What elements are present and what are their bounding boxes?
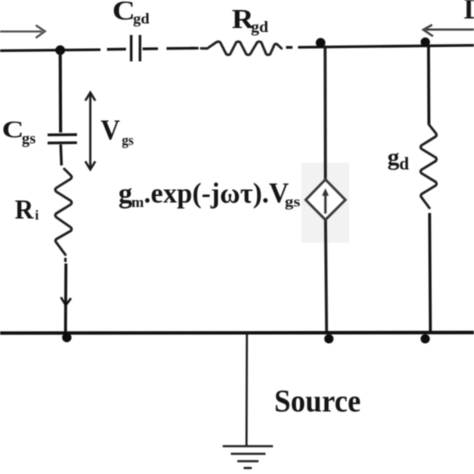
svg-text:C: C	[2, 118, 24, 144]
wire gd branch bottom	[428, 213, 432, 333]
ground symbol	[223, 446, 273, 468]
wire Ri to bottom rail	[64, 258, 67, 333]
gate current arrow	[0, 25, 45, 38]
capacitor C_gd	[131, 35, 140, 61]
wire Cgs to Ri	[59, 145, 62, 166]
wire gate node to Cgd	[0, 49, 126, 51]
wire gd branch top	[427, 45, 430, 125]
resistor g_d	[421, 125, 437, 209]
current source internal arrow	[322, 188, 329, 213]
node A (gate top)	[55, 45, 65, 55]
svg-text:d: d	[399, 153, 409, 173]
node B (current source top)	[316, 38, 326, 48]
svg-text:.exp(-jωτ).V: .exp(-jωτ).V	[144, 178, 289, 209]
wire current source bottom	[326, 220, 327, 333]
svg-text:m: m	[131, 195, 144, 211]
svg-text:gs: gs	[22, 130, 36, 147]
svg-text:gs: gs	[122, 133, 134, 149]
node D (left bottom)	[62, 333, 71, 342]
svg-text:gd: gd	[251, 19, 269, 36]
current source backdrop	[302, 163, 350, 243]
svg-text:V: V	[101, 115, 120, 147]
wire current source top	[324, 46, 327, 180]
svg-text:C: C	[112, 0, 135, 25]
current source U1 (diamond)	[306, 180, 346, 220]
svg-text:i: i	[35, 208, 39, 223]
svg-text:g: g	[387, 145, 399, 171]
svg-text:g: g	[118, 178, 132, 209]
capacitor C_gs	[48, 135, 77, 143]
resistor R_gd	[201, 42, 282, 55]
svg-text:gs: gs	[285, 195, 301, 211]
current direction arrowhead (left branch)	[61, 297, 71, 305]
ground stem wire	[245, 333, 247, 446]
wire Cgd to Rgd	[143, 47, 199, 50]
svg-text:gd: gd	[133, 11, 150, 27]
node F (gd bottom)	[421, 334, 430, 343]
node C (gd top)	[421, 37, 430, 46]
drain current arrow	[423, 25, 474, 36]
svg-text:Source: Source	[274, 383, 361, 419]
svg-text:R: R	[15, 195, 34, 225]
wire left branch top	[59, 50, 62, 133]
bottom rail wire	[0, 331, 474, 335]
svg-text:D: D	[464, 0, 474, 25]
node E (source bottom of current source)	[324, 334, 333, 343]
wire Rgd to drain line	[286, 45, 474, 47]
resistor R_i	[55, 169, 71, 255]
voltage arrow Vgs	[85, 93, 95, 170]
